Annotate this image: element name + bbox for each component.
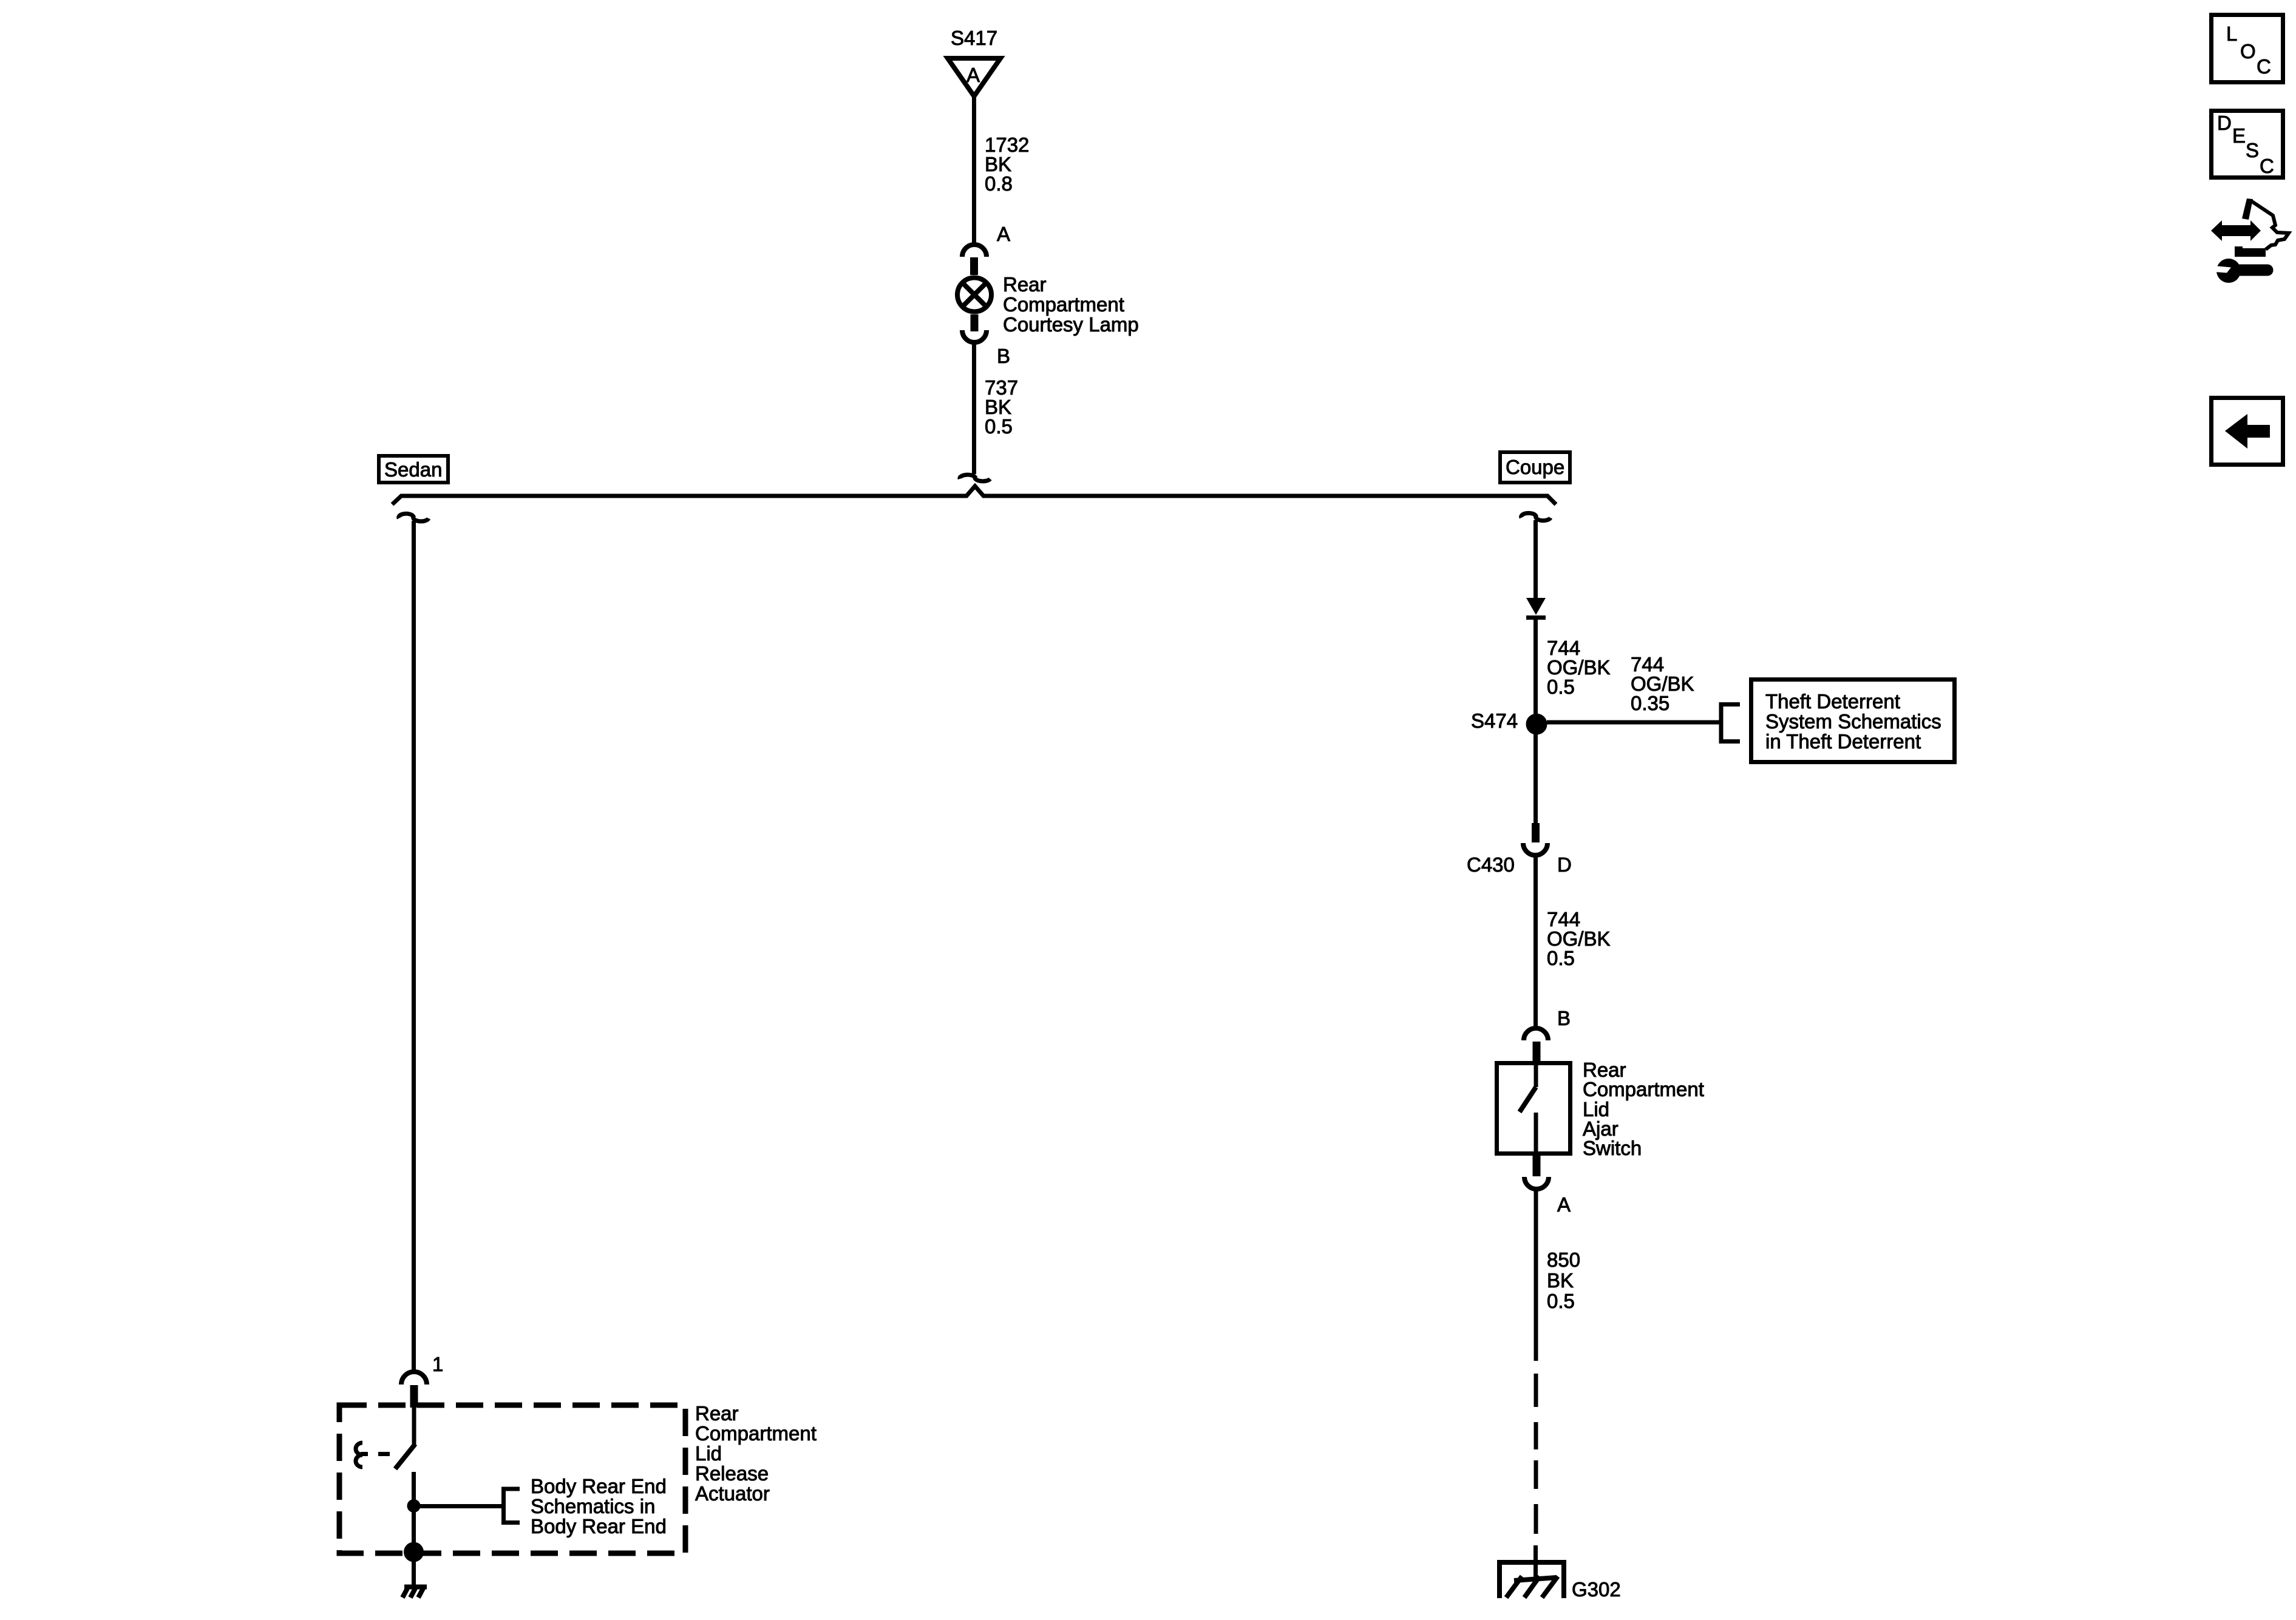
wire below ground node [412, 1552, 416, 1586]
svg-text:C: C [2260, 155, 2274, 177]
box Rear Compartment Lid Ajar Switch [1497, 1063, 1571, 1154]
male terminal bar above switch [1533, 1042, 1541, 1062]
splice node S474 [1526, 714, 1547, 735]
junction node in actuator [407, 1499, 421, 1513]
svg-text:S: S [2246, 139, 2259, 161]
lamp: Rear Compartment Courtesy Lamp [957, 278, 991, 312]
switch stub inside actuator [412, 1408, 416, 1445]
svg-text:0.5: 0.5 [1547, 676, 1575, 698]
right vertical wire upper [1533, 520, 1538, 598]
svg-text:Schematics in: Schematics in [531, 1495, 655, 1517]
switch contact top stub [1534, 1061, 1538, 1087]
svg-text:BK: BK [1547, 1269, 1574, 1292]
svg-text:O: O [2240, 40, 2256, 63]
svg-text:in Theft Deterrent: in Theft Deterrent [1765, 730, 1921, 753]
back arrow icon box [2212, 398, 2283, 465]
dashed wire to G302 [1534, 1374, 1538, 1534]
svg-text:Rear: Rear [695, 1402, 739, 1425]
svg-text:D: D [2217, 112, 2232, 134]
jump/tool icon: double arrow [2211, 220, 2261, 241]
connector arc at switch pin A [1524, 1177, 1549, 1189]
wire hook at bus (S417 branch) [960, 475, 990, 481]
svg-text:Courtesy Lamp: Courtesy Lamp [1003, 313, 1139, 336]
connector arc at actuator pin 1 [401, 1372, 427, 1384]
ground node (case ground) [404, 1542, 424, 1562]
jump/tool icon: outline pointer [2242, 198, 2253, 220]
case ground rake symbol [402, 1587, 427, 1598]
connector arrow symbol [1526, 598, 1546, 615]
actuator lower contact stub [412, 1472, 416, 1500]
svg-text:Switch: Switch [1583, 1137, 1642, 1159]
svg-text:0.5: 0.5 [985, 415, 1013, 438]
svg-text:System Schematics: System Schematics [1765, 710, 1941, 733]
connector arc at lamp pin B [962, 330, 987, 342]
svg-text:A: A [997, 223, 1010, 245]
svg-text:Coupe: Coupe [1506, 456, 1564, 478]
box Theft Deterrent System Schematics [1751, 680, 1955, 762]
svg-text:Compartment: Compartment [1583, 1078, 1704, 1100]
svg-text:0.5: 0.5 [1547, 947, 1575, 969]
dashed box Rear Compartment Lid Release Actuator [339, 1405, 685, 1553]
male terminal bar into actuator [410, 1385, 418, 1408]
svg-text:B: B [997, 345, 1010, 367]
svg-text:0.5: 0.5 [1547, 1290, 1575, 1312]
svg-text:L: L [2226, 22, 2237, 45]
bracket to body rear end note [504, 1489, 520, 1523]
branch wire to theft deterrent [1547, 720, 1719, 725]
bracket to theft deterrent box [1721, 705, 1740, 742]
branch wire to body rear end [414, 1504, 503, 1508]
mechanical linkage curl [356, 1443, 362, 1467]
switch blade [1520, 1087, 1536, 1112]
connector arc at switch pin B [1524, 1028, 1548, 1040]
svg-text:Compartment: Compartment [695, 1422, 817, 1445]
svg-text:Sedan: Sedan [384, 458, 442, 481]
Sedan label box [379, 456, 448, 483]
svg-text:1: 1 [432, 1353, 443, 1375]
wire 744 OG/BK 0.5 lower [1533, 856, 1538, 1028]
svg-text:S474: S474 [1471, 710, 1518, 732]
svg-text:B: B [1557, 1007, 1571, 1029]
male terminal bar below lamp [971, 314, 979, 331]
ground stub wire [1533, 1545, 1538, 1579]
DESC icon box [2212, 111, 2283, 178]
bus wire Sedan-Coupe [392, 486, 1556, 504]
svg-text:C: C [2257, 55, 2271, 78]
connector C430: male bar [1532, 823, 1540, 842]
svg-text:Lid: Lid [695, 1442, 722, 1465]
svg-text:0.8: 0.8 [985, 172, 1013, 195]
wire 1732 BK 0.8 [972, 97, 976, 245]
svg-text:Release: Release [695, 1462, 769, 1485]
svg-text:0.35: 0.35 [1631, 692, 1669, 714]
svg-text:Body Rear End: Body Rear End [531, 1515, 667, 1537]
male terminal bar below switch [1533, 1156, 1541, 1176]
jump/tool icon: wrench [2216, 259, 2241, 283]
LOC icon box [2212, 15, 2283, 83]
actuator switch blade [395, 1444, 415, 1469]
wire hook at Sedan branch [399, 513, 429, 521]
svg-text:D: D [1557, 853, 1572, 876]
left vertical wire (Sedan branch) [412, 521, 416, 1371]
svg-text:C430: C430 [1467, 853, 1515, 876]
svg-text:Compartment: Compartment [1003, 293, 1124, 316]
wire below S474 [1533, 733, 1538, 824]
wire 850 BK 0.5 [1534, 1191, 1538, 1361]
svg-text:Rear: Rear [1003, 273, 1047, 296]
svg-text:Actuator: Actuator [695, 1482, 770, 1505]
ground G302 symbol [1500, 1562, 1564, 1598]
svg-text:S417: S417 [951, 27, 997, 49]
mechanical linkage dash [378, 1452, 390, 1456]
splice S417 triangle symbol [948, 58, 1000, 97]
wire 744 OG/BK 0.5 upper [1533, 620, 1538, 715]
connector C430: female arc [1523, 843, 1547, 855]
svg-text:A: A [1557, 1193, 1571, 1216]
switch contact bottom stub [1534, 1113, 1538, 1156]
male terminal bar above lamp [970, 257, 978, 275]
wire hook at Coupe branch [1521, 513, 1550, 520]
svg-text:Body Rear End: Body Rear End [531, 1475, 667, 1497]
wire 737 BK 0.5 [972, 344, 976, 474]
svg-text:G302: G302 [1572, 1578, 1621, 1601]
Coupe label box [1500, 452, 1570, 483]
svg-text:Theft Deterrent: Theft Deterrent [1765, 690, 1900, 713]
svg-text:850: 850 [1547, 1249, 1580, 1271]
connector arc at lamp pin A [962, 245, 987, 257]
svg-text:E: E [2232, 124, 2246, 147]
wire from junction to ground node [412, 1506, 416, 1552]
svg-text:A: A [966, 64, 980, 86]
